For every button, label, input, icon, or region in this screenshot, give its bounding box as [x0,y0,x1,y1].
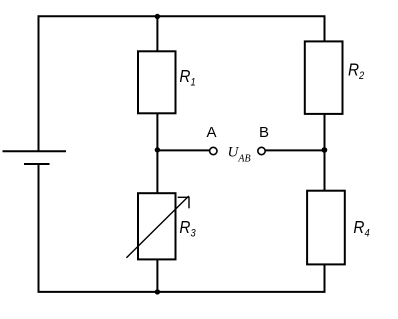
wire: terminal B to right junction [266,149,325,151]
node: left middle junction [155,147,160,152]
R3 arrowhead horizontal barb [178,196,189,198]
wire: left junction to terminal A [157,149,209,151]
resistor R2 body [305,41,343,114]
svg-text:B: B [259,124,269,141]
svg-text:A: A [207,124,217,141]
resistor R1 body [138,51,176,113]
wire: R2 bottom to R4 top [324,114,326,191]
resistor R4 body [307,191,345,265]
node: bottom junction [155,289,160,294]
terminal B circle [258,147,265,154]
resistor R3 body (variable) [138,193,176,259]
node: right middle junction [322,147,328,153]
wire: left + top + right-top segment [39,16,325,151]
node: top junction [155,14,160,19]
R3 variable arrow shaft [126,196,188,258]
wire: top stub to R1 [156,16,158,51]
battery long plate (+) [3,150,67,152]
R3 arrowhead vertical barb [188,197,190,209]
wire: R3 bottom to bottom rail [156,259,158,292]
terminal A circle [210,147,217,154]
wire: R1 bottom to R3 top [156,113,158,193]
battery short plate (-) [24,163,50,165]
wire: left-lower + bottom + right-bottom segment [39,164,325,292]
